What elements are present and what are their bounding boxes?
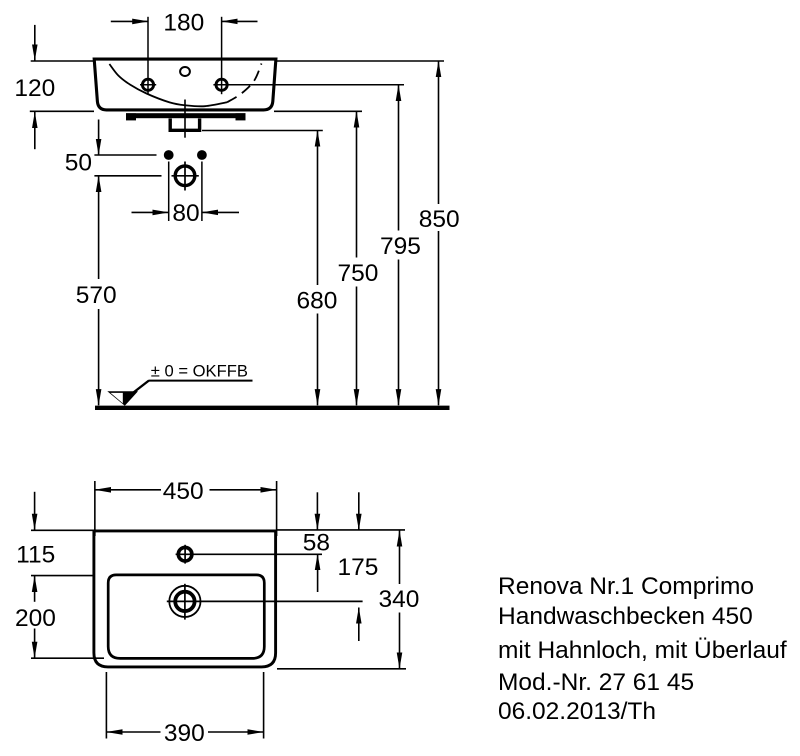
svg-text:mit Hahnloch, mit Überlauf: mit Hahnloch, mit Überlauf <box>498 637 787 664</box>
svg-text:± 0 = OKFFB: ± 0 = OKFFB <box>151 362 248 381</box>
plan tap hole cross vertical <box>184 545 186 564</box>
svg-text:680: 680 <box>297 287 338 314</box>
plan inner bottom extension left (200) <box>31 657 104 659</box>
plan top edge extension left <box>31 529 94 531</box>
dim 180 right arrow <box>222 20 258 22</box>
dim 390 extension right <box>263 672 265 739</box>
dim 340 upper segment <box>399 531 401 585</box>
svg-text:390: 390 <box>164 720 205 747</box>
fixing hole cross horizontal <box>172 175 199 177</box>
dim 80 left arrow <box>132 211 169 213</box>
svg-text:175: 175 <box>337 554 378 581</box>
dim 850 upper segment <box>438 61 440 204</box>
dim 850 lower segment <box>438 231 440 405</box>
basin inner bowl right curve (dashed) <box>227 64 262 103</box>
svg-text:795: 795 <box>380 233 421 260</box>
plan outer outline <box>94 531 276 667</box>
dim 58 top arrow <box>316 492 318 530</box>
svg-text:Handwaschbecken 450: Handwaschbecken 450 <box>498 603 753 630</box>
plan tap hole ref line (58) <box>176 553 322 555</box>
svg-text:80: 80 <box>172 200 199 227</box>
plan tap hole circle <box>178 547 192 561</box>
svg-text:50: 50 <box>65 150 92 177</box>
80 extension line right <box>201 162 203 222</box>
floor line <box>95 406 450 410</box>
ref line drain bottom (680) <box>202 130 323 132</box>
dim 795 upper segment <box>398 85 400 231</box>
dim 570 upper segment <box>98 176 100 279</box>
right tap hole circle <box>216 79 227 90</box>
dim 450 extension left <box>94 481 96 536</box>
plan inner basin outline <box>108 575 264 659</box>
svg-text:Renova Nr.1 Comprimo: Renova Nr.1 Comprimo <box>498 573 754 600</box>
fixing hole cross vertical <box>184 162 186 191</box>
svg-text:Mod.-Nr. 27 61 45: Mod.-Nr. 27 61 45 <box>498 669 694 696</box>
dim 390 left segment <box>106 731 160 733</box>
bolt hole left <box>164 150 174 160</box>
plan drain outer circle <box>169 586 200 617</box>
dim 570 lower segment <box>98 309 100 405</box>
level triangle notch <box>111 393 123 403</box>
left tap hole circle <box>142 79 153 90</box>
dim 390 extension left <box>105 672 107 739</box>
svg-text:115: 115 <box>16 541 55 568</box>
plan inner top extension left (115) <box>31 575 93 577</box>
bolt hole right <box>197 150 207 160</box>
svg-text:340: 340 <box>379 586 420 613</box>
ref line basin top left <box>31 60 94 62</box>
basin inner bowl left curve <box>109 64 227 106</box>
level triangle filled <box>107 391 138 406</box>
dim 750 lower segment <box>356 287 358 406</box>
svg-text:200: 200 <box>15 605 56 632</box>
dim 750 upper segment <box>356 111 358 257</box>
dim 80 right arrow <box>202 211 239 213</box>
right tap hole cross + 795 reference line <box>213 84 404 86</box>
dim 180 left arrow <box>111 20 149 22</box>
dim 795 lower segment <box>398 260 400 406</box>
dim 390 right segment <box>208 731 264 733</box>
dim 680 lower segment <box>317 314 319 406</box>
mounting bracket bar <box>126 113 246 118</box>
overflow hole <box>180 67 190 76</box>
dim 120 top arrow <box>34 25 36 61</box>
plan bottom edge extension right <box>277 668 406 670</box>
ref line bolt holes (50 top) <box>94 154 156 156</box>
plan drain cross vertical <box>184 584 186 620</box>
plan top edge extension right <box>277 529 405 531</box>
ref line basin bottom left <box>30 110 94 112</box>
svg-text:180: 180 <box>163 9 204 36</box>
dim 450 left segment <box>95 489 161 491</box>
left tap hole cross horizontal <box>140 84 156 86</box>
svg-text:850: 850 <box>419 206 460 233</box>
plan drain cross horizontal + 175 ref line <box>167 600 363 602</box>
ref line basin bottom right (750) <box>274 110 362 112</box>
mounting bracket left cap <box>126 113 136 120</box>
dim 175 bottom arrow <box>358 608 360 642</box>
svg-text:750: 750 <box>338 260 379 287</box>
right tap hole centerline <box>221 17 223 94</box>
dim 200 upper segment <box>34 576 36 602</box>
svg-text:06.02.2013/Th: 06.02.2013/Th <box>498 698 656 725</box>
svg-text:120: 120 <box>14 75 55 102</box>
dim 450 extension right <box>276 481 278 536</box>
level diagonal <box>127 381 149 398</box>
dim 58 bottom arrow <box>317 554 319 592</box>
dim 50 top arrow <box>98 120 100 156</box>
dim 120 bottom arrow <box>34 112 36 149</box>
level underline <box>149 380 253 382</box>
basin outer outline <box>94 59 276 110</box>
plan drain inner circle <box>175 592 194 611</box>
drain centerline <box>184 100 186 138</box>
ref line fixing hole (50 bottom) <box>94 175 161 177</box>
dim 680 upper segment <box>317 131 319 286</box>
dim 200 lower segment <box>34 629 36 658</box>
left tap hole centerline <box>147 17 149 94</box>
dim 340 lower segment <box>399 613 401 669</box>
dim 175 top arrow <box>358 492 360 530</box>
svg-text:450: 450 <box>163 478 204 505</box>
dim 115 top arrow <box>34 492 36 530</box>
mounting bracket right cap <box>236 113 246 120</box>
80 extension line left <box>168 162 170 222</box>
fixing hole circle <box>175 166 195 186</box>
drain outlet box <box>170 119 199 131</box>
svg-text:58: 58 <box>303 530 330 557</box>
svg-text:570: 570 <box>76 282 117 309</box>
ref line basin top right (850) <box>277 60 444 62</box>
dim 450 right segment <box>210 489 277 491</box>
